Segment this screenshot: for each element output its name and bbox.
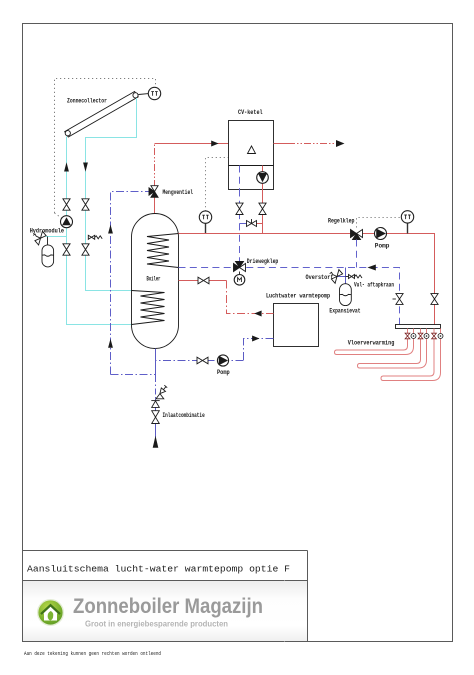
burner symbol triangle [248,146,256,154]
boiler lower heating coil (solar) [132,291,165,325]
svg-text:Groot in energiebesparende pro: Groot in energiebesparende producten [85,619,228,629]
wire collector to sensor TT1 [139,93,149,96]
drain tap aftapkraan [156,385,167,399]
flow meter F1 [411,334,416,339]
valve V6 CV supply [259,203,266,214]
floor heating manifold bar [396,325,441,329]
overstort branch stub [337,276,346,278]
temperature sensor TT1 [148,87,160,99]
temperature sensor TT3 [401,211,413,223]
pipe mengventiel to boiler top [154,197,156,215]
valve V3 solar supply lower [63,244,70,255]
svg-text:Vloerverwarming: Vloerverwarming [348,340,395,347]
flow arrow up riser (lower) [108,339,113,348]
valve V4 solar return lower [82,244,89,255]
mengventiel riser pipe (dash-dot-dot red) [154,144,156,188]
svg-text:CV-ketel: CV-ketel [238,109,263,116]
valve V9 heat pump return [197,357,208,364]
svg-text:Hydromodule: Hydromodule [30,227,65,234]
valve V8 heat pump supply [198,277,209,284]
boiler vessel [132,214,179,349]
safety valve overstort [330,270,343,284]
solar supply pipe (collector to boiler lower coil) [67,137,132,325]
heat pump unit box [274,304,319,347]
sensor wiring dotted run [55,79,156,214]
CV internal supply pipe [262,166,264,190]
CV internal return pipe (dashed) [239,166,241,190]
svg-text:Pomp: Pomp [217,369,230,376]
fill/drain tap vul-aftapkraan [346,275,363,279]
check valve inlaatcombinatie [151,401,159,408]
pipe mengventiel to CV-ketel [155,143,229,145]
cold water inlet arrow [153,436,159,448]
flow arrow CV out [336,140,345,147]
title block middle line [23,580,308,582]
floor heating loop 2 [358,329,427,369]
flow meter F2 [424,334,429,339]
flow arrow down (solar return) [83,163,88,172]
flow arrow up riser (upper) [108,225,113,234]
svg-text:Luchtwater warmtepomp: Luchtwater warmtepomp [266,293,330,300]
TT3 stem [407,223,409,234]
flow arrow into heat pump [254,311,261,317]
floor heating loop 1 [335,329,414,355]
svg-text:Pomp: Pomp [375,242,390,249]
svg-text:Driewegklep: Driewegklep [247,258,279,265]
svg-text:Inlaatcombinatie: Inlaatcombinatie [163,412,205,419]
CV-ketel compartment divider [229,165,274,167]
main return header pipe (dashed) [179,268,400,325]
valve V11 manifold supply [431,294,438,305]
floor circuit pump P3 [375,228,387,240]
svg-text:Zonneboiler Magazijn: Zonneboiler Magazijn [73,595,263,618]
regelklep three-way control valve [351,230,363,240]
driewegklep three-way valve [234,262,246,272]
motor actuator M [234,275,245,286]
flow arrow out of heat pump return [252,336,259,342]
svg-text:Overstort: Overstort [306,274,334,281]
TT2 stem [205,223,207,233]
svg-text:Mengventiel: Mengventiel [163,189,194,196]
cold water feed pipe lower [155,399,157,438]
bypass connector left [240,223,252,225]
mengventiel three-way mixing valve [149,186,158,198]
bypass connector right [252,223,263,225]
safety valve overstort hydromodule [33,231,46,245]
svg-text:Boiler: Boiler [147,275,161,282]
heat pump return pipe dash-dot [244,339,274,361]
loop valve L2 [418,333,423,339]
CV return drop pipe (dashed) [239,190,241,263]
heat pump supply pipe dash-dot [227,281,274,314]
expansion vessel expansievat [340,284,352,306]
stop valve inlaatcombinatie [152,411,160,424]
floor heating loop 3 [381,329,441,381]
sensor wiring regelklep dotted [357,218,401,228]
CV flow out pipe dash-dot-dot [288,143,338,145]
svg-text:Aansluitschema lucht-water war: Aansluitschema lucht-water warmtepomp op… [27,564,290,575]
main supply header pipe (boiler to floor manifold) [179,234,435,325]
fill/drain tap solar line [88,235,102,239]
valve V10 manifold return [393,294,404,305]
valve V2 solar return upper [82,199,89,210]
solar return pipe (collector top to boiler) [86,98,137,291]
heat pump supply pipe from boiler [179,280,227,282]
temperature sensor TT2 boiler [199,211,211,223]
svg-text:Regelklep: Regelklep [328,217,355,224]
regelklep return drop pipe [356,240,358,268]
solar pump P1 [61,216,73,228]
CV flow out pipe right [274,143,289,145]
cold water feed pipe dash-dot [155,376,157,399]
svg-text:Vul- aftapkraan: Vul- aftapkraan [354,281,394,288]
heat pump pump P4 [217,355,228,366]
title block right edge [307,551,309,642]
floor-heating return riser (dash-dot) [111,192,150,375]
CV-ketel boiler box [229,121,274,190]
hydromodule branch pipe [46,236,67,238]
svg-text:Zonnecollector: Zonnecollector [67,98,107,105]
cold water feed pipe upper [155,349,157,377]
CV pump P2 [257,172,269,184]
CV supply drop pipe [262,190,264,234]
zonnecollector panel [65,92,139,138]
sensor wiring TT2 dotted [206,158,229,212]
riser bottom connector [111,374,156,376]
driewegklep actuator stem [239,272,241,276]
sensor wiring dotted lead to pump [55,213,64,220]
svg-text:Expansievat: Expansievat [329,308,361,315]
flow arrow up (solar supply) [64,162,69,171]
flow arrow return header [367,265,375,271]
flow arrow into CV-ketel [211,141,218,147]
boiler upper heating coil [147,234,179,268]
expansion vessel branch pipe [345,268,347,284]
flow meter F3 [438,334,443,339]
valve V5 CV return [236,203,243,214]
heat pump return pipe to boiler [156,360,244,362]
svg-text:Aan deze tekening kunnen geen: Aan deze tekening kunnen geen rechten wo… [24,651,161,657]
title block top line [23,550,308,552]
loop valve L3 [432,333,437,339]
expansion vessel hydromodule [42,237,54,267]
loop valve L1 [405,333,410,339]
logo box divider [284,581,286,642]
bypass valve V7 [247,219,257,227]
valve V1 solar supply upper [63,199,70,210]
